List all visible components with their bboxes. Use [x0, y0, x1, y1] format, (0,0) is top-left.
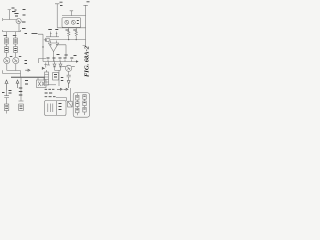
box K1	[53, 73, 59, 81]
label R63	[73, 29, 77, 31]
text row 3	[45, 96, 56, 98]
resistor R51	[19, 104, 24, 111]
box X1	[37, 77, 47, 87]
resistor R32	[5, 44, 9, 53]
wire left input	[3, 18, 17, 21]
node dot	[42, 46, 43, 47]
box BR	[73, 93, 89, 118]
ground node	[19, 100, 24, 102]
label 7	[45, 39, 47, 41]
arrow right small 2	[64, 88, 69, 90]
resistor RB3	[76, 106, 79, 115]
diode D4	[42, 63, 47, 70]
wire from match line down	[20, 77, 22, 101]
match line bus	[11, 76, 45, 78]
resistor R61 stub	[50, 32, 57, 37]
arrow right small 1	[57, 88, 62, 90]
diode D2	[53, 62, 56, 71]
wire emitter bus	[7, 64, 21, 71]
sub box corner	[39, 59, 47, 64]
resistor RB5	[83, 99, 86, 105]
resistor R42	[14, 44, 18, 53]
IC box U2	[62, 18, 81, 28]
wire right drop	[83, 40, 86, 46]
diode D3	[59, 62, 62, 71]
transistor Q1	[16, 18, 21, 23]
label R20	[15, 14, 19, 17]
node bus top-left	[3, 30, 21, 32]
resistor R70 hatched	[45, 70, 49, 85]
wire band bus	[43, 61, 76, 63]
label R31	[4, 35, 8, 37]
resistor R31	[5, 32, 9, 44]
resistor RB4	[83, 95, 86, 100]
resistor R64	[44, 38, 49, 41]
transistor Q4	[13, 53, 22, 64]
power symbol V1 top-left	[8, 8, 17, 20]
node dots rail	[68, 39, 69, 40]
wire op-amp output	[53, 52, 55, 62]
op-amp U1	[48, 41, 58, 52]
transistor Q9	[62, 65, 75, 71]
connector CN1	[68, 101, 74, 107]
arrow band end	[76, 60, 79, 62]
power symbol V2	[55, 2, 63, 28]
capacitor C7	[2, 90, 12, 104]
resistor RB1	[76, 94, 79, 101]
wire long rail	[50, 39, 86, 41]
label column C4	[22, 10, 27, 34]
wire band bottom	[47, 84, 56, 86]
wire top rail	[62, 15, 86, 17]
wire Q1 collector	[18, 24, 20, 32]
label RC4	[32, 33, 38, 35]
wire band lower	[55, 69, 61, 71]
resistor R50	[4, 104, 8, 114]
stubs above band	[48, 60, 72, 62]
resistor RB6	[83, 106, 86, 115]
wire feedback	[58, 45, 66, 58]
wire base bus	[3, 70, 21, 77]
wire mid rail	[57, 27, 85, 29]
wire arrow to connector	[69, 88, 71, 101]
label 68	[57, 55, 77, 56]
label column B	[19, 88, 23, 95]
label R61	[48, 29, 58, 31]
resistor R41	[14, 32, 18, 44]
arrow connector A1	[5, 80, 8, 90]
label R41	[13, 35, 16, 37]
label row above band	[47, 57, 74, 59]
capacitor C10	[67, 71, 71, 80]
wire RC4 to node	[38, 34, 43, 61]
label R62	[66, 29, 70, 31]
capacitor C9 stub	[70, 11, 73, 16]
component marks right of K1	[61, 78, 64, 81]
label column left of X1	[25, 81, 28, 85]
diode D1	[47, 62, 50, 66]
transistor Q3	[4, 53, 13, 64]
box BC	[45, 101, 66, 116]
wire k1 drop	[58, 70, 60, 86]
resistor RB2	[76, 100, 79, 106]
svg-text:FIG. 68A-2: FIG. 68A-2	[84, 45, 91, 77]
resistor R63	[75, 28, 77, 40]
arrow connector A2	[16, 80, 19, 88]
power symbol V3	[83, 2, 89, 40]
text row 2	[45, 92, 53, 94]
arrow connector A3	[67, 81, 70, 88]
resistor R62	[68, 28, 70, 40]
text row 1	[45, 88, 55, 90]
arrow into page left	[25, 61, 31, 72]
wire to connector	[56, 98, 67, 101]
wire op-amp input bus	[46, 36, 59, 38]
